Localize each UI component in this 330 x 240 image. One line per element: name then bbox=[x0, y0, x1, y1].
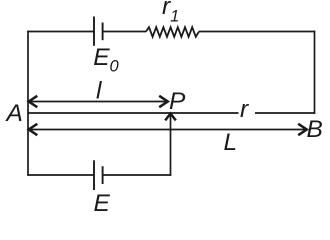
wire: bottom-right horizontal segment to jockey branch bbox=[103, 174, 172, 176]
wire: slide-wire segment from node A to label r bbox=[28, 112, 239, 114]
svg-text:r1: r1 bbox=[162, 0, 179, 26]
wire: slide-wire segment right of label r bbox=[255, 112, 315, 114]
dimension arrow L (A to B) bbox=[29, 124, 307, 135]
wire: bottom-left horizontal segment bbox=[27, 174, 94, 176]
svg-text:P: P bbox=[169, 88, 186, 115]
wire: top-right horizontal segment bbox=[199, 31, 315, 33]
svg-text:l: l bbox=[96, 78, 102, 105]
svg-text:r: r bbox=[240, 96, 249, 123]
wire: top-left horizontal segment bbox=[27, 31, 94, 33]
svg-text:A: A bbox=[5, 100, 23, 127]
svg-text:B: B bbox=[307, 116, 323, 143]
battery E bbox=[94, 160, 103, 190]
wire: left vertical branch through node A bbox=[27, 31, 29, 176]
resistor r1 bbox=[146, 27, 199, 37]
jockey arrow at P (contact onto slide-wire) bbox=[165, 114, 176, 176]
svg-text:E0: E0 bbox=[93, 44, 119, 76]
dimension arrow l (A to P) bbox=[29, 96, 168, 107]
svg-text:L: L bbox=[224, 129, 238, 156]
battery E0 bbox=[94, 17, 103, 46]
wire: right vertical branch bbox=[314, 31, 316, 114]
svg-text:E: E bbox=[94, 190, 111, 217]
wire: segment between battery E0 and resistor r1 bbox=[103, 31, 147, 33]
